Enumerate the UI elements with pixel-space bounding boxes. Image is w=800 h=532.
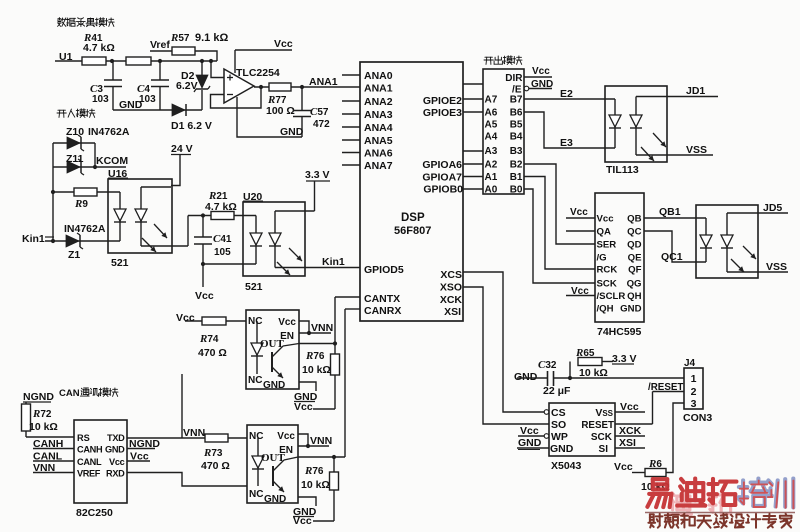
svg-text:GND: GND (105, 445, 125, 455)
wire op-amp + input (211, 61, 224, 78)
wire Vcc pin label (127, 451, 150, 463)
svg-text:Vcc: Vcc (597, 214, 615, 225)
svg-text:DSP: DSP (401, 212, 425, 224)
svg-text:Kin1: Kin1 (322, 256, 345, 268)
wire B1 to 74HC595 RCK (524, 177, 595, 270)
svg-text:CANL: CANL (77, 457, 102, 467)
svg-text:C41: C41 (213, 233, 232, 245)
power Vcc to 74HC595 Vcc pin (566, 207, 595, 218)
svg-text:B6: B6 (510, 108, 523, 119)
wire opto2 GND pin to GND (293, 497, 317, 518)
wire main analog input net (55, 60, 217, 62)
zener diode Z10 IN4762A (53, 126, 130, 151)
svg-text:4.7 kΩ: 4.7 kΩ (83, 42, 115, 54)
wire opto1 EN pin to VNN (299, 322, 333, 335)
svg-text:Z10: Z10 (66, 126, 84, 138)
net CANH input (33, 438, 74, 450)
svg-text:SO: SO (551, 419, 566, 431)
power Vcc rail for op-amp (235, 38, 293, 73)
svg-text:A4: A4 (485, 132, 498, 143)
svg-text:1: 1 (691, 373, 697, 385)
svg-text:VNN: VNN (311, 322, 333, 334)
node U1 (input) (59, 51, 73, 63)
optocoupler U16 521 (108, 168, 188, 269)
svg-text:521: 521 (245, 281, 263, 293)
svg-text:24 V: 24 V (171, 143, 193, 155)
svg-text:GND: GND (280, 126, 304, 138)
svg-text:QC1: QC1 (661, 251, 683, 263)
wire GND pin to NGND (127, 438, 160, 450)
watermark text 易迪拓培训 (647, 479, 793, 514)
optocoupler U20 521 (243, 191, 315, 293)
svg-text:E3: E3 (560, 137, 573, 149)
svg-text:GND: GND (550, 443, 574, 455)
svg-text:GND: GND (119, 99, 143, 111)
wire GPIOA6 to A2 (463, 163, 483, 165)
svg-text:/G: /G (597, 253, 607, 264)
svg-text:QF: QF (628, 265, 641, 276)
svg-text:ANA6: ANA6 (364, 148, 393, 160)
resistor R65 10 kΩ to 3.3 V (570, 347, 637, 379)
svg-text:Vcc: Vcc (571, 286, 589, 297)
svg-text:103: 103 (92, 94, 109, 105)
wire X5043 Vss pin to Vcc (615, 401, 645, 413)
svg-text:VNN: VNN (310, 435, 332, 447)
power Vcc with resistor R74 470 Ω to opto1 anode (176, 312, 246, 359)
wire input clamp rail (51, 143, 55, 243)
svg-text:OUT: OUT (261, 452, 286, 464)
wire DSP to A3 (463, 150, 483, 152)
resistor R6 10 kΩ with Vcc (614, 458, 670, 493)
svg-text:3: 3 (691, 398, 697, 410)
zener diode Z11 (53, 153, 95, 175)
svg-text:ANA3: ANA3 (364, 109, 393, 121)
svg-text:QE: QE (628, 253, 642, 264)
svg-text:Kin1: Kin1 (22, 233, 45, 245)
wire ANA pin stubs (342, 75, 360, 165)
svg-text:Vcc: Vcc (620, 401, 639, 413)
node Kin1 input with zener Z1 IN4762A (22, 223, 120, 261)
svg-text:C57: C57 (310, 106, 329, 118)
wire /E to GND (524, 79, 553, 91)
wire TXD to opto2 with net VNN (127, 427, 247, 439)
svg-text:A7: A7 (485, 95, 498, 106)
svg-text:Vcc: Vcc (130, 451, 149, 463)
wire GPIOA7 to A1 (463, 176, 483, 178)
svg-text:NGND: NGND (129, 438, 160, 450)
net Vref label (150, 39, 170, 51)
svg-text:CS: CS (551, 407, 566, 419)
module label: 数据采集模块 (data acquisition module) (57, 18, 114, 27)
svg-text:JD5: JD5 (763, 202, 782, 214)
wire B2 to 74HC595 SER (524, 164, 595, 244)
wire X5043 SCK to net XCK (615, 425, 645, 437)
svg-text:R9: R9 (74, 198, 88, 210)
shift register U? 74HC595 (595, 193, 644, 338)
watermark underline (645, 512, 795, 514)
svg-text:10 kΩ: 10 kΩ (29, 421, 58, 433)
zener diode D2 6.2V (176, 61, 210, 110)
svg-text:82C250: 82C250 (76, 507, 113, 519)
svg-text:A1: A1 (485, 172, 498, 183)
DSP U? 56F807 (360, 62, 463, 321)
svg-text:NC: NC (249, 489, 263, 500)
svg-text:A5: A5 (485, 120, 498, 131)
svg-text:R76: R76 (304, 465, 324, 477)
svg-text:SER: SER (597, 240, 617, 251)
svg-text:GPIOA7: GPIOA7 (422, 172, 462, 184)
wire B6 to E3 (TIL113) (524, 112, 615, 149)
op-amp U? TLC2254 (224, 67, 280, 103)
svg-text:XCK: XCK (619, 425, 642, 437)
svg-text:Vcc: Vcc (176, 312, 195, 324)
connector J4 CON3 (683, 358, 712, 424)
svg-text:Z11: Z11 (66, 153, 84, 165)
svg-text:/SCLR: /SCLR (597, 291, 626, 302)
svg-text:VNN: VNN (183, 427, 205, 439)
svg-text:521: 521 (111, 257, 129, 269)
svg-text:10 kΩ: 10 kΩ (579, 367, 608, 379)
wire opto2 Vcc pin to VNN (298, 434, 308, 446)
svg-text:QH: QH (627, 291, 641, 302)
svg-text:GND: GND (531, 79, 553, 90)
svg-text:22 μF: 22 μF (543, 385, 571, 397)
wire net VSS (TIL113) (636, 144, 713, 156)
resistor R41 4.7 kΩ (82, 32, 115, 65)
svg-text:2: 2 (691, 386, 697, 398)
wire Vref to R57 (150, 51, 217, 61)
watermark text 射频和天线设计专家 (648, 514, 791, 528)
svg-text:R73: R73 (203, 447, 223, 459)
svg-text:IN4762A: IN4762A (64, 223, 106, 235)
svg-text:ANA5: ANA5 (364, 135, 393, 147)
resistor R57 9.1 kΩ (170, 32, 228, 55)
svg-text:XSO: XSO (440, 282, 462, 294)
wire net VSS (JD5) (727, 261, 788, 273)
node junction D2 tap (200, 59, 204, 63)
svg-text:105: 105 (214, 247, 231, 258)
resistor R21 4.7 kΩ (188, 190, 256, 220)
wire GPIOE3 to A6 (463, 111, 483, 113)
wire QA stub (566, 230, 595, 232)
node junction C3 tap (110, 59, 114, 63)
svg-text:470 Ω: 470 Ω (201, 460, 230, 472)
svg-text:NC: NC (248, 316, 262, 327)
wire B7 to E2 (TIL113) (524, 88, 615, 100)
svg-text:A2: A2 (485, 160, 498, 171)
svg-text:A0: A0 (485, 185, 498, 196)
wire opto1 OUT to CANTX junction (299, 341, 337, 345)
optocoupler (CANRX isolation) 6N137-style (247, 425, 298, 505)
wire opto2 EN pin to VNN (298, 435, 332, 448)
svg-text:GPIOA6: GPIOA6 (422, 159, 462, 171)
optocoupler (JD5 output) (696, 205, 758, 278)
svg-text:GND: GND (263, 380, 285, 391)
wire net QB1 (644, 206, 706, 218)
svg-text:QD: QD (627, 240, 641, 251)
wire CANRX net (345, 309, 360, 457)
wire opto2 OUT to CANRX junction (298, 455, 345, 459)
svg-text:CAN: CAN (59, 388, 80, 399)
ground GND to X5043 GND pin (517, 437, 549, 450)
capacitor C3 103 (90, 61, 122, 110)
svg-text:QA: QA (597, 227, 611, 238)
resistor R76 10 kΩ pull-up (opto2) (293, 457, 339, 527)
power 24 V for U16 (171, 143, 193, 186)
net CANL input (33, 451, 74, 463)
buffer U? bus driver (483, 69, 524, 196)
svg-text:XSI: XSI (619, 437, 636, 449)
svg-text:TXD: TXD (107, 433, 125, 443)
capacitor C32 22 μF (538, 359, 571, 397)
svg-text:Vcc: Vcc (570, 207, 588, 218)
svg-text:6.2V: 6.2V (176, 80, 198, 92)
wire CANTX net (335, 297, 360, 344)
svg-text:XCS: XCS (440, 269, 462, 281)
optocoupler (CANTX isolation) 6N137-style (246, 310, 299, 391)
svg-text:R57: R57 (170, 32, 190, 44)
watchdog U? X5043 (544, 403, 615, 472)
svg-text:QB: QB (627, 214, 641, 225)
wire J4 pin3 to R6 (666, 403, 684, 473)
svg-text:GND: GND (518, 437, 542, 449)
net KCOM (93, 143, 128, 169)
optocoupler TIL113 (605, 86, 667, 176)
wire X5043 SI to net XSI (615, 437, 645, 449)
resistor R73 470 Ω (201, 434, 230, 472)
wire U16 output to R21 (187, 216, 189, 247)
wire net Kin1 from U20 to DSP GPIOD5 (275, 256, 360, 268)
svg-text:ANA4: ANA4 (364, 122, 393, 134)
module label: CAN通讯模块 (59, 388, 118, 399)
wire XSO to X5043 SO (463, 287, 549, 424)
svg-text:Vcc: Vcc (277, 431, 295, 442)
power 3.3 V for U20 (305, 169, 330, 211)
svg-text:VSS: VSS (595, 407, 613, 419)
resistor (unlabeled, series) (126, 57, 151, 65)
svg-text:Vcc: Vcc (195, 290, 214, 302)
wire XCS to X5043 CS (463, 272, 544, 412)
capacitor C41 105 (194, 216, 232, 265)
ground GND at C32 (514, 371, 547, 383)
svg-text:SI: SI (599, 444, 609, 455)
svg-text:JD1: JD1 (686, 85, 705, 97)
svg-text:R6: R6 (648, 458, 662, 470)
wire RXD to opto2 lower input (127, 473, 247, 487)
svg-text:GPIOB0: GPIOB0 (423, 184, 463, 196)
svg-text:OUT: OUT (260, 338, 285, 350)
svg-text:CANH: CANH (77, 445, 103, 455)
wire C41 bottom to U20 cathode and Vcc (195, 262, 256, 302)
svg-text:DIR: DIR (505, 73, 523, 84)
wire net JD1 (636, 85, 718, 97)
svg-text:R74: R74 (199, 333, 219, 345)
wire opto1 cathode down to TXD junction (181, 374, 183, 438)
svg-text:56F807: 56F807 (394, 225, 431, 237)
svg-text:TLC2254: TLC2254 (236, 67, 280, 79)
transceiver U? 82C250 (74, 420, 127, 519)
svg-text:A3: A3 (485, 146, 498, 157)
svg-text:A6: A6 (485, 108, 498, 119)
svg-text:Z1: Z1 (68, 249, 80, 261)
svg-text:NC: NC (249, 431, 263, 442)
module label: 开出模块 (output module) (484, 56, 522, 65)
wire GPIOE2 to A7 (463, 98, 483, 100)
svg-text:ANA1: ANA1 (364, 83, 393, 95)
wire GPIOB0 to A0 (463, 188, 483, 190)
svg-text:CANRX: CANRX (364, 305, 401, 317)
svg-text:CANTX: CANTX (364, 293, 400, 305)
wire B0 to 74HC595 SCK (524, 189, 595, 283)
svg-text:ANA1: ANA1 (309, 76, 338, 88)
wire opto1 GND pin to GND (294, 382, 318, 403)
svg-text:Vcc: Vcc (532, 66, 550, 77)
module label: 开入模块 (digital input module) (57, 109, 95, 118)
svg-text:B2: B2 (510, 160, 523, 171)
svg-text:D1 6.2 V: D1 6.2 V (171, 120, 212, 132)
power Vcc to X5043 WP (518, 425, 544, 437)
svg-text:E2: E2 (560, 88, 573, 100)
svg-text:C32: C32 (538, 359, 557, 371)
wire X5043 RESET pin to /RESET (615, 423, 653, 425)
svg-text:3.3 V: 3.3 V (612, 353, 637, 365)
svg-text:Vref: Vref (150, 39, 170, 51)
svg-text:VSS: VSS (766, 261, 787, 273)
svg-text:R72: R72 (32, 408, 52, 420)
svg-text:ANA0: ANA0 (364, 70, 393, 82)
svg-text:QG: QG (627, 279, 642, 290)
svg-text:B4: B4 (510, 132, 523, 143)
power Vcc to /SCLR pin (566, 286, 595, 297)
svg-text:KCOM: KCOM (96, 155, 128, 167)
net VNN input (33, 462, 74, 474)
svg-text:Vcc: Vcc (109, 457, 125, 467)
wire op-amp output / net ANA1 (254, 76, 360, 88)
svg-text:SCK: SCK (591, 432, 613, 443)
svg-text:XCK: XCK (440, 294, 463, 306)
svg-text:X5043: X5043 (551, 460, 582, 472)
svg-text:472: 472 (313, 119, 330, 130)
svg-text:XSI: XSI (444, 306, 461, 318)
svg-text:B3: B3 (510, 146, 523, 157)
svg-text:CON3: CON3 (683, 412, 712, 424)
diode D1 6.2 V (171, 104, 212, 132)
svg-text:GND: GND (264, 494, 286, 505)
node junction C4 tap (158, 59, 162, 63)
resistor R9 (53, 188, 120, 210)
svg-text:B7: B7 (510, 95, 523, 106)
svg-text:9.1 kΩ: 9.1 kΩ (195, 32, 228, 44)
svg-text:Vcc: Vcc (520, 425, 539, 437)
svg-text:GPIOD5: GPIOD5 (364, 264, 404, 276)
svg-text:3.3 V: 3.3 V (305, 169, 330, 181)
svg-text:QB1: QB1 (659, 206, 681, 218)
svg-text:RESET: RESET (581, 420, 614, 431)
svg-text:4.7 kΩ: 4.7 kΩ (205, 201, 237, 213)
resistor R76 10 kΩ pull-up (opto1) (294, 344, 340, 414)
svg-text:RCK: RCK (597, 265, 618, 276)
svg-text:10 kΩ: 10 kΩ (302, 364, 331, 376)
capacitor C57 472 (293, 87, 330, 137)
svg-text:TIL113: TIL113 (606, 164, 639, 176)
svg-text:GND: GND (514, 371, 538, 383)
svg-text:VREF: VREF (77, 469, 101, 479)
svg-text:QC: QC (627, 227, 641, 238)
svg-text:R65: R65 (575, 347, 595, 359)
capacitor C4 103 (137, 61, 169, 110)
svg-text:NC: NC (248, 375, 262, 386)
svg-text:Vcc: Vcc (614, 461, 633, 473)
svg-text:B0: B0 (510, 185, 523, 196)
svg-text:ANA7: ANA7 (364, 160, 393, 172)
wire DIR to Vcc (524, 66, 552, 77)
svg-text:10 kΩ: 10 kΩ (301, 479, 330, 491)
wire DSP to buffer /E (463, 83, 483, 85)
svg-text:Vcc: Vcc (274, 38, 293, 50)
svg-text:J4: J4 (684, 358, 696, 369)
svg-text:R76: R76 (305, 350, 325, 362)
svg-text:GPIOE2: GPIOE2 (423, 95, 462, 107)
svg-text:/RESET: /RESET (648, 382, 683, 393)
svg-text:100 Ω: 100 Ω (266, 105, 295, 117)
svg-text:B1: B1 (510, 172, 523, 183)
svg-text:B5: B5 (510, 120, 523, 131)
resistor R77 100 Ω (266, 83, 295, 117)
wire opto1 Vcc pin to VNN (299, 321, 309, 333)
wire net QC1 (644, 231, 706, 263)
wire op-amp - input feedback loop (211, 85, 264, 108)
wire net /RESET to J4 pin2 (648, 382, 684, 424)
svg-text:ANA2: ANA2 (364, 96, 393, 108)
node junction op-amp + tap (209, 59, 213, 63)
wire net JD5 (727, 202, 788, 214)
svg-text:Vcc: Vcc (278, 317, 296, 328)
svg-text:WP: WP (551, 431, 568, 443)
svg-text:GND: GND (620, 304, 641, 315)
ground rail GND (113, 99, 202, 111)
svg-text:SCK: SCK (597, 279, 617, 290)
svg-text:/QH: /QH (597, 304, 614, 315)
svg-text:VSS: VSS (686, 144, 707, 156)
svg-text:RS: RS (77, 433, 90, 443)
svg-text:IN4762A: IN4762A (88, 126, 130, 138)
svg-text:NGND: NGND (23, 391, 54, 403)
wire C32 to J4 pin1 (3.3V rail) (554, 376, 685, 380)
node junction C41 tap (201, 213, 205, 217)
net NGND with resistor R72 10 kΩ (22, 391, 58, 437)
wire RS pin to R72 (26, 436, 74, 438)
svg-text:GPIOE3: GPIOE3 (423, 107, 462, 119)
node junction C57 tap (300, 85, 304, 89)
wire op-amp V- to GND with C57 (237, 97, 304, 138)
svg-text:RXD: RXD (106, 469, 125, 479)
svg-text:470 Ω: 470 Ω (198, 347, 227, 359)
svg-text:74HC595: 74HC595 (597, 326, 642, 338)
